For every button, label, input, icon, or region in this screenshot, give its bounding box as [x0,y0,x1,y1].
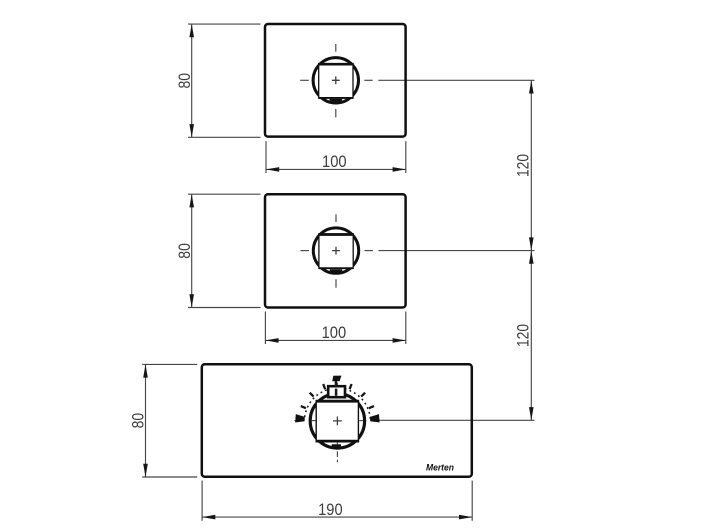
leader line knob3 to 120 dim [378,419,534,421]
dimension 190 arrows [202,515,472,520]
centerline knob2 horizontal [300,250,373,252]
dimension 80 plate3 extension lines [142,364,197,477]
svg-text:100: 100 [322,152,347,171]
leader line knob1 to 120 dim [378,79,534,81]
svg-text:80: 80 [129,413,148,429]
dimension 80 plate2 arrows [189,194,194,307]
knob 2 square bottom edge [319,267,354,269]
knob 3 dial end stop right [370,414,380,422]
dimension 100 plate1 extension lines [266,141,406,173]
dimension 80 plate1 extension lines [188,24,261,137]
dimension 120 lower arrows [529,251,534,421]
dimension 100 plate1 line [266,168,406,170]
knob 2 square [319,234,353,268]
svg-text:190: 190 [318,500,343,519]
dimension 80 plate1 arrows [189,24,194,137]
dimension 100 plate2 extension lines [265,312,405,345]
dimension 80 plate2 line [191,194,193,307]
svg-text:80: 80 [175,243,194,259]
dimension 190 extension lines [202,481,472,521]
dimension 80 plate3 arrows [143,364,148,477]
plate 1 outline [265,24,406,137]
dimension 190 line [202,516,472,518]
dimension 80 plate3 line [145,364,147,477]
knob 1 square bottom edge [318,97,353,99]
centerline knob3 horizontal [294,420,302,422]
knob 3 pointer stem [335,381,337,387]
knob 2 center cross [332,247,340,255]
svg-text:100: 100 [322,323,347,342]
knob 1 center cross [332,76,340,84]
dimension 120 upper arrows [529,80,534,250]
svg-text:Merten: Merten [426,463,454,474]
knob 3 center cross [333,417,342,426]
knob 3 inner centerline dashes [312,421,364,445]
knob 3 square top edge [316,400,360,403]
plate 3 outline [202,364,472,477]
knob 1 circle [313,58,358,103]
knob 3 bottom tab [332,444,341,449]
svg-text:80: 80 [175,73,194,89]
knob 2 bottom tab [330,269,343,273]
centerline knob1 vertical [335,44,337,117]
svg-text:120: 120 [514,154,533,177]
dimension 80 plate1 line [191,24,193,137]
knob 3 square [316,401,358,441]
dimension 100 plate2 arrows [265,338,405,343]
knob 2 circle [313,228,358,273]
dimension 80 plate2 extension lines [188,194,261,307]
dimension 100 plate1 arrows [266,167,406,172]
centerline knob3 vertical [336,383,339,463]
centerline knob1 horizontal [300,79,373,81]
knob 1 square top edge [318,63,354,66]
knob 2 square top edge [318,233,354,236]
knob 3 square bottom edge [316,440,360,443]
dimension 120 lower line [530,251,532,421]
knob 1 bottom tab [330,99,343,103]
knob 3 dial dotted arc [305,388,371,418]
knob 3 tab centerline dash [335,389,338,396]
centerline knob2 vertical [335,214,337,287]
leader line knob2 to 120 dim [379,250,535,252]
dimension 120 upper line [530,80,532,250]
svg-text:120: 120 [514,324,533,347]
knob 3 pointer [332,376,341,382]
knob 3 dial end stop left [295,414,305,422]
dimension 100 plate2 line [265,339,405,341]
knob 3 top tab [328,386,345,397]
knob 1 square [319,64,353,98]
knob 3 circle [310,394,364,448]
knob 3 dial ticks [301,384,374,408]
plate 2 outline [265,194,406,307]
